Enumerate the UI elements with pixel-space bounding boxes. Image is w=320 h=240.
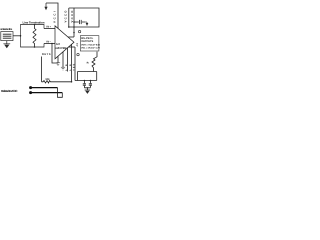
wire hysteresis drop xyxy=(52,44,58,64)
supply arrow VCCI xyxy=(45,3,47,7)
wire ring left drop xyxy=(77,72,79,81)
wire caps common xyxy=(84,88,90,90)
wire source to termination box xyxy=(13,35,21,37)
terminal Q xyxy=(78,30,80,32)
wire IN+ xyxy=(44,28,55,30)
node cap2 xyxy=(90,80,92,82)
node hysteresis xyxy=(51,43,53,45)
node Q stub xyxy=(73,32,75,34)
wire VCCO riser right xyxy=(73,8,75,37)
wire IN- xyxy=(44,43,55,45)
node cap tap xyxy=(73,21,75,23)
ground caps xyxy=(85,89,91,91)
wire output Q xyxy=(68,36,74,38)
node rail2 xyxy=(73,26,75,28)
capacitor C2 xyxy=(83,81,86,88)
node RH out xyxy=(71,81,73,83)
wire riser Qbar xyxy=(74,47,76,81)
op-amp U1 LMH7322 xyxy=(55,26,74,59)
svg-text:VCCO: VCCO xyxy=(64,10,68,23)
node rail1 xyxy=(68,26,70,28)
node A xyxy=(20,35,22,37)
resistor RL xyxy=(92,52,97,72)
pin 2 ground xyxy=(62,52,64,67)
ground xyxy=(3,41,10,44)
wire bus2 xyxy=(31,92,63,94)
svg-text:smission line: smission line xyxy=(0,28,13,31)
svg-text:OUTPUTS: OUTPUTS xyxy=(81,40,93,43)
wire hyst left drop xyxy=(41,57,43,82)
node RT bottom xyxy=(34,46,36,48)
resistor RH 10k xyxy=(42,81,72,83)
svg-text:Rₗ: Rₗ xyxy=(87,61,90,64)
node bus1 xyxy=(29,86,32,89)
wire output Qbar xyxy=(68,46,75,48)
wire bus U-turn xyxy=(58,88,63,98)
svg-text:IN−: IN− xyxy=(46,41,52,44)
line termination box xyxy=(21,25,45,48)
resistor RT xyxy=(33,25,36,48)
capacitor C1 xyxy=(74,20,85,24)
node bus2 xyxy=(29,91,32,94)
source V1 xyxy=(1,32,13,41)
svg-text:Line Termination: Line Termination xyxy=(23,20,45,24)
wire VCCI pin xyxy=(46,3,58,28)
svg-text:RHYS: RHYS xyxy=(42,53,51,56)
wire cap rail xyxy=(75,80,97,82)
wire RL bottom xyxy=(78,71,97,73)
svg-text:IN+: IN+ xyxy=(46,26,52,29)
svg-text:LMH 7322: LMH 7322 xyxy=(55,46,67,50)
svg-text:Referred to VCCO: Referred to VCCO xyxy=(1,89,18,93)
capacitor C3 xyxy=(89,81,92,88)
node RT top xyxy=(34,24,36,26)
pin 1 ground xyxy=(57,56,59,62)
pin 3 LE xyxy=(67,48,69,72)
svg-text:VOL = VCCO−1.7V: VOL = VCCO−1.7V xyxy=(81,46,100,49)
pin 4 LEbar xyxy=(71,44,73,82)
note box RSPECL outputs xyxy=(80,36,99,51)
wire top rail xyxy=(69,8,99,27)
terminal Qbar xyxy=(77,53,79,55)
svg-text:VOH = VCCO−0.9V: VOH = VCCO−0.9V xyxy=(81,43,100,46)
ground C1 xyxy=(85,22,87,23)
node caps xyxy=(87,87,88,88)
wire bus1 xyxy=(31,87,58,89)
source waveform xyxy=(3,34,12,38)
svg-text:VCCI: VCCI xyxy=(52,11,56,23)
wire VCCO riser left xyxy=(68,8,70,27)
node cap1 xyxy=(84,80,86,82)
wire ring right drop xyxy=(96,72,98,81)
svg-text:Q: Q xyxy=(76,44,78,47)
